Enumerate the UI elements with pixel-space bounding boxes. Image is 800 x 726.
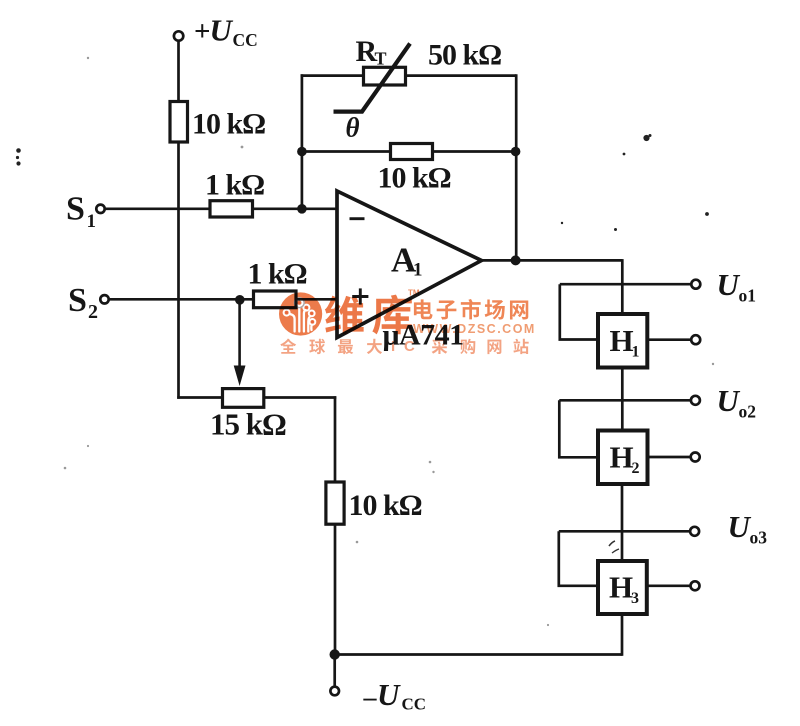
label H2 (610, 440, 640, 478)
terminal H1 right (691, 335, 700, 344)
H1 box (598, 314, 647, 368)
svg-text:+: + (194, 16, 211, 48)
svg-text:S: S (66, 191, 85, 228)
svg-text:1 kΩ: 1 kΩ (248, 258, 307, 291)
svg-text:WWW.DZSC.COM: WWW.DZSC.COM (413, 322, 536, 336)
terminal Uo1 (691, 280, 700, 289)
svg-text:50 kΩ: 50 kΩ (428, 39, 501, 72)
label H3 (609, 570, 639, 608)
junction feedback mid-left (297, 147, 307, 157)
svg-text:U: U (728, 509, 752, 544)
svg-text:H: H (609, 570, 633, 605)
wire mid loop (302, 150, 516, 153)
svg-text:1: 1 (413, 260, 423, 281)
svg-text:S: S (68, 282, 87, 319)
svg-text:10 kΩ: 10 kΩ (378, 162, 451, 195)
potentiometer 15k body (223, 389, 264, 408)
wire S1 to opamp inverting input (105, 207, 337, 210)
svg-text:H: H (610, 440, 634, 475)
label Uo1 (717, 267, 757, 306)
svg-text:TM: TM (408, 289, 420, 298)
scan specks (16, 134, 709, 231)
svg-text:CC: CC (233, 30, 258, 50)
svg-text:2: 2 (632, 460, 640, 477)
junction feedback mid-right (511, 147, 521, 157)
svg-text:1 kΩ: 1 kΩ (205, 169, 264, 202)
wire output down to H1 (621, 259, 624, 314)
label H1 (610, 323, 640, 361)
resistor 1k (S2) (254, 291, 297, 308)
wire feedback left vertical (301, 74, 304, 209)
wire corner to pot left (177, 396, 222, 399)
svg-text:3: 3 (631, 590, 639, 607)
label S2 (68, 282, 98, 323)
op-amp A1 triangle (337, 191, 482, 338)
svg-text:U: U (717, 267, 741, 302)
terminal -Ucc (330, 687, 339, 696)
wire H3 right to terminal (647, 584, 691, 587)
svg-text:CC: CC (402, 695, 427, 714)
bottom rail wire (335, 653, 623, 656)
svg-text:U: U (377, 677, 401, 712)
svg-text:10 kΩ: 10 kΩ (349, 489, 422, 522)
wire top loop (301, 74, 517, 77)
svg-text:θ: θ (346, 113, 360, 143)
label +Ucc (194, 13, 258, 51)
terminal Uo3 (690, 527, 699, 536)
svg-text:1: 1 (632, 344, 640, 361)
svg-text:C: C (404, 338, 415, 355)
svg-text:U: U (210, 13, 234, 48)
resistor 10k top-left (170, 102, 188, 143)
bracket H1 left (560, 284, 598, 339)
wire right vertical of loops (515, 74, 518, 260)
bracket H2 left (559, 400, 598, 457)
wire pot right to bottom branch (264, 396, 337, 399)
bracket H3 left (559, 531, 598, 586)
wire Uo1 row (560, 283, 692, 286)
svg-text:T: T (375, 49, 387, 69)
wire R bottom down to pot corner (177, 142, 180, 399)
label Uo3 (728, 509, 768, 548)
svg-text:o1: o1 (739, 286, 757, 306)
svg-text:2: 2 (88, 301, 98, 323)
terminal S1 (96, 205, 104, 213)
thermistor diagonal stroke (334, 44, 411, 112)
label A1 (391, 241, 423, 281)
wire H2 right to terminal (648, 456, 691, 459)
junction node inverting input (297, 204, 307, 214)
wire H2 to H3 (621, 484, 624, 561)
terminal +Ucc (174, 31, 183, 40)
wire -Ucc stub (333, 655, 336, 688)
terminal H2 right (691, 453, 700, 462)
terminal S2 (100, 295, 108, 303)
terminal Uo2 (691, 396, 700, 405)
wire Uo3 row (559, 530, 690, 533)
wire H3 bottom to rail (621, 614, 624, 656)
op-amp plus sign (352, 288, 368, 304)
junction output/feedback (511, 255, 521, 265)
thermistor RT body (364, 67, 406, 85)
svg-text:o2: o2 (739, 402, 757, 422)
label S1 (66, 191, 96, 233)
svg-text:U: U (717, 383, 741, 418)
wire H1 to H2 (621, 368, 624, 431)
label Uo2 (717, 383, 757, 422)
label RT (356, 35, 387, 69)
watermark slogan 全球最大IC采购网站 (280, 338, 528, 355)
resistor 10k bottom (326, 482, 344, 524)
junction S2 wiper tap (235, 295, 245, 305)
watermark text 电子市场网 (414, 299, 528, 320)
junction -Ucc node (330, 649, 340, 659)
svg-text:o3: o3 (750, 528, 768, 548)
label -Ucc (363, 677, 427, 714)
wire Uo2 row (559, 399, 691, 402)
svg-text:1: 1 (87, 211, 97, 232)
H3 box (598, 561, 647, 614)
svg-text:–: – (363, 683, 378, 712)
wire H1 right to terminal (647, 338, 691, 341)
terminal H3 right (691, 581, 700, 590)
watermark: dzsc.com logo circle (279, 292, 322, 335)
wire bottom branch vertical lower (334, 524, 337, 654)
resistor 1k (S1) (210, 201, 253, 217)
wire bottom branch vertical upper (334, 396, 337, 482)
H2 box (598, 431, 648, 485)
wire +Ucc down to R top (177, 41, 180, 102)
svg-text:15 kΩ: 15 kΩ (210, 407, 286, 442)
watermark text 维库 (325, 295, 412, 335)
op-amp minus sign (350, 217, 365, 220)
wire opamp output (482, 259, 623, 262)
resistor 10k feedback (391, 144, 433, 160)
pen marks near H3 (609, 541, 615, 546)
svg-text:I: I (391, 338, 395, 355)
wire S2 to opamp noninverting input (109, 298, 337, 301)
svg-text:H: H (610, 323, 634, 358)
pot wiper arrow (238, 300, 241, 368)
svg-text:10 kΩ: 10 kΩ (192, 108, 265, 141)
